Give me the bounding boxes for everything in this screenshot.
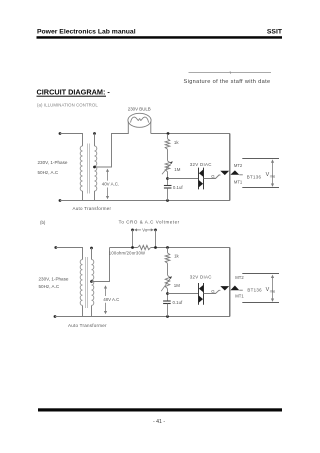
svg-text:Signature of the staff with da: Signature of the staff with date [184, 79, 271, 85]
svg-text:SSIT: SSIT [267, 29, 283, 36]
auto transformer T1 primary winding [80, 146, 82, 191]
auto transformer T2 primary winding [80, 260, 82, 306]
node: capacitor bottom junction b [166, 315, 169, 318]
wire triac rail b [229, 248, 231, 317]
wire primary bottom lead b [82, 306, 84, 317]
svg-text:rms: rms [270, 174, 276, 178]
svg-text:1k: 1k [174, 140, 179, 145]
svg-text:BT136: BT136 [247, 287, 262, 292]
node: secondary top terminal [93, 132, 96, 135]
potentiometer 1M [165, 161, 170, 172]
wire lamp right leg [150, 122, 152, 134]
svg-text:50Hz, A.C: 50Hz, A.C [39, 284, 60, 289]
svg-text:MT1: MT1 [235, 294, 244, 299]
wire triac rail [229, 134, 231, 201]
wire bottom rail b [55, 316, 230, 318]
svg-text:100ohm/20or30W: 100ohm/20or30W [109, 250, 145, 255]
auto transformer T1 secondary winding [95, 146, 97, 191]
node: AC line terminal (top) [59, 132, 62, 135]
load voltage terminals [242, 158, 279, 160]
node: load left junction [131, 246, 134, 249]
footer rule [38, 408, 282, 411]
wire R1 to pot [167, 149, 169, 161]
svg-text:MT2: MT2 [235, 275, 244, 280]
svg-text:- 41 -: - 41 - [153, 419, 165, 425]
svg-text:0.1uf: 0.1uf [173, 300, 184, 305]
wire Vo stub left [132, 230, 134, 248]
wire pot to node b [167, 289, 169, 301]
signature line [189, 72, 272, 74]
Vrms arrow [272, 162, 274, 185]
wire top-left rail b [56, 248, 83, 260]
svg-text:0.1uf: 0.1uf [173, 185, 184, 190]
node: transformer tap b [90, 280, 93, 283]
node: AC line terminal b (bottom) [54, 315, 57, 318]
header rule [37, 36, 283, 39]
svg-text:BT136: BT136 [247, 175, 262, 180]
transformer core b [85, 257, 87, 308]
svg-text:MT1: MT1 [234, 179, 243, 184]
load resistor 100ohm/20or30W [138, 245, 151, 249]
node: Vo probe right [154, 229, 157, 232]
lamp (230V bulb) [128, 113, 151, 127]
svg-text:(a) ILLUMINATION CONTROL: (a) ILLUMINATION CONTROL [37, 103, 98, 108]
svg-text:Power Electronics Lab manual: Power Electronics Lab manual [37, 29, 136, 36]
node: transformer tap [93, 166, 96, 169]
wire bottom rail [60, 200, 230, 202]
svg-text:32V DIAC: 32V DIAC [190, 274, 212, 279]
svg-text:1k: 1k [174, 254, 179, 259]
svg-text:1M: 1M [174, 167, 180, 172]
48V AC measure arrow [105, 287, 107, 296]
node: load right junction [154, 246, 157, 249]
node: AC line terminal b (top) [54, 246, 57, 249]
wire secondary top stub [94, 134, 96, 147]
wire top-left rail [60, 134, 83, 147]
svg-text:To CRO & A.C Voltmeter: To CRO & A.C Voltmeter [119, 220, 180, 225]
wire top rail [151, 133, 230, 135]
Vo arrows [135, 229, 141, 231]
svg-text:50Hz, A.C: 50Hz, A.C [38, 170, 59, 175]
svg-text:G: G [211, 174, 215, 179]
wire secondary bottom lead [94, 191, 96, 201]
svg-text:(b): (b) [40, 220, 46, 225]
svg-text:230V, 1-Phase: 230V, 1-Phase [38, 160, 68, 165]
wire node to diac [168, 178, 199, 180]
wire secondary top stub b [91, 248, 93, 260]
wire diac to gate [204, 175, 221, 179]
capacitor 0.1uf [164, 185, 172, 187]
transformer core [87, 144, 89, 194]
wire R2 to pot b [167, 263, 169, 275]
svg-text:Vo: Vo [142, 228, 148, 233]
load voltage terminals b [242, 273, 279, 275]
svg-text:Auto Transformer: Auto Transformer [73, 206, 112, 211]
node: R1 top junction [167, 132, 170, 135]
node: R2 top junction [166, 246, 169, 249]
svg-text:G: G [211, 289, 215, 294]
svg-text:32V DIAC: 32V DIAC [190, 162, 212, 167]
resistor 1k b [167, 248, 169, 253]
svg-text:1M: 1M [174, 283, 180, 288]
wire primary bottom lead [82, 191, 84, 201]
node: secondary top terminal b [90, 247, 93, 250]
svg-text:40V A.C.: 40V A.C. [102, 182, 119, 187]
wire lamp left leg [95, 122, 129, 168]
potentiometer 1M b [165, 275, 170, 288]
svg-text:Auto Transformer: Auto Transformer [68, 323, 107, 328]
capacitor 0.1uf b [163, 300, 171, 302]
resistor 1k [165, 139, 170, 149]
wire tap to rail b [92, 248, 110, 282]
svg-text:48V A.C: 48V A.C [103, 297, 119, 302]
node: AC line terminal (bottom) [59, 199, 62, 202]
wire Vo stub right [155, 230, 157, 248]
diac D2 [198, 283, 200, 305]
wire node to diac b [168, 293, 199, 295]
wire pot to node [167, 172, 169, 186]
triac Q2 BT136 [220, 286, 229, 290]
node: diac takeoff [166, 177, 169, 180]
svg-text:MT2: MT2 [234, 163, 243, 168]
svg-text:230V BULB: 230V BULB [128, 107, 151, 112]
wire diac to gate b [204, 290, 221, 293]
wire secondary bottom lead b [91, 306, 93, 317]
svg-text:rms: rms [270, 289, 276, 293]
svg-text:CIRCUIT DIAGRAM: -: CIRCUIT DIAGRAM: - [37, 88, 111, 97]
auto transformer T2 secondary winding [92, 260, 94, 306]
triac Q1 BT136 [220, 171, 229, 175]
node: capacitor bottom junction [166, 199, 169, 202]
Vrms arrow b [272, 277, 274, 300]
node: Vo probe left [131, 229, 134, 232]
diac D1 [198, 168, 200, 190]
40V AC measure arrow [107, 171, 109, 181]
wire top rail b right [151, 247, 230, 249]
node: diac takeoff b [166, 292, 169, 295]
wire top rail b left [110, 247, 138, 249]
svg-text:230V, 1-Phase: 230V, 1-Phase [39, 277, 69, 282]
